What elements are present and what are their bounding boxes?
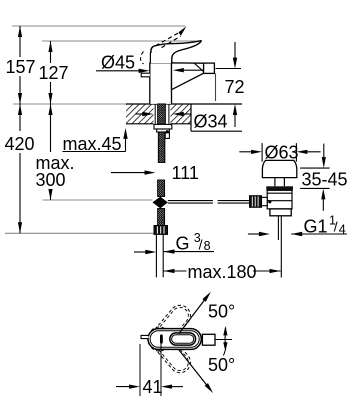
svg-text:/: / [334, 219, 338, 235]
svg-text:127: 127 [39, 63, 69, 83]
svg-text:41: 41 [143, 377, 163, 397]
svg-text:max.45: max.45 [63, 134, 122, 154]
svg-text:Ø63: Ø63 [265, 143, 299, 163]
svg-text:72: 72 [225, 77, 245, 97]
svg-text:300: 300 [36, 170, 66, 190]
svg-text:G: G [176, 234, 190, 254]
svg-text:111: 111 [172, 163, 199, 183]
svg-text:50°: 50° [208, 301, 235, 321]
svg-text:8: 8 [204, 239, 211, 253]
svg-text:max.180: max.180 [188, 262, 257, 282]
svg-text:35-45: 35-45 [302, 169, 348, 189]
svg-text:157: 157 [6, 57, 36, 77]
svg-text:Ø34: Ø34 [194, 112, 228, 132]
svg-text:G1: G1 [304, 216, 328, 236]
svg-text:50°: 50° [208, 355, 235, 375]
svg-text:/: / [199, 236, 203, 252]
svg-text:420: 420 [5, 134, 35, 154]
svg-text:4: 4 [339, 222, 346, 236]
svg-text:Ø45: Ø45 [101, 53, 135, 73]
